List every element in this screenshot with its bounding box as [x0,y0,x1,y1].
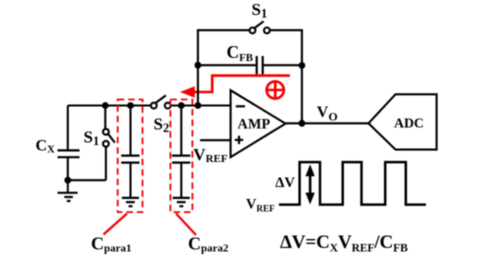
node: feedback top-right [299,62,306,69]
red charge symbol (circle with cross) [267,81,284,98]
svg-text:ΔV: ΔV [275,175,295,191]
wire: amp output [286,122,369,124]
wire: CX bottom vertical [67,157,69,180]
red pointer line to Cpara1 label [104,214,128,235]
delta-V double arrow [305,164,314,204]
wire: top S1 loop right side [270,30,302,123]
node: Cpara1 branch [127,102,134,109]
wire: main input node (right of S2) [171,104,231,106]
ADC block (pentagon) [369,94,437,149]
parasitic box Cpara1 (red dashed) [118,100,143,213]
ground under CX [58,180,78,201]
node: feedback top-left [195,62,202,69]
wire: non-inverting input [200,139,231,141]
ground under Cpara2 [173,198,190,206]
red annotation arrow [195,76,290,92]
capacitor Cpara1 [121,155,139,157]
switch S1 blade [255,21,264,28]
node: Cpara2 branch [178,102,185,109]
node: S1 branch [102,102,109,109]
switch S2 blade [156,95,166,102]
node: output VO [299,120,306,127]
svg-text:AMP: AMP [238,116,271,132]
wire: CFB row right [263,64,302,66]
wire: Cpara2 vertical [180,106,182,156]
capacitor CFB [256,56,258,74]
wire: CFB row left [198,64,257,66]
capacitor Cpara2 [172,155,190,157]
svg-text:ADC: ADC [394,116,424,131]
wire: feedback vertical [197,65,199,105]
wire: Cpara1 to ground [129,163,131,198]
capacitor CX [58,149,80,151]
wire: bottom return to S1 [68,179,106,181]
wire: main input node (left of S2) [68,104,151,106]
parasitic box Cpara2 (red dashed) [170,100,192,213]
op-amp minus sign [236,105,245,107]
wire: CX top vertical [67,106,69,151]
ground under Cpara1 [122,198,139,206]
svg-text:ΔV=CXVREF/CFB: ΔV=CXVREF/CFB [280,232,408,255]
wire: Cpara2 to ground [180,163,182,198]
node: feedback junction at amp input [195,102,202,109]
node: CX bottom [64,177,71,184]
op-amp plus sign [235,139,243,141]
op-amp U1 triangle [231,90,286,157]
switch S1 top contact circles [250,28,256,34]
red pointer line to Cpara2 label [176,214,196,236]
switch S2 contact circles [151,103,157,109]
wire: Cpara1 vertical [129,106,131,156]
waveform square wave [279,162,426,205]
switch S1 (input branch) [104,106,106,129]
wire: top S1 loop left side [198,30,250,65]
